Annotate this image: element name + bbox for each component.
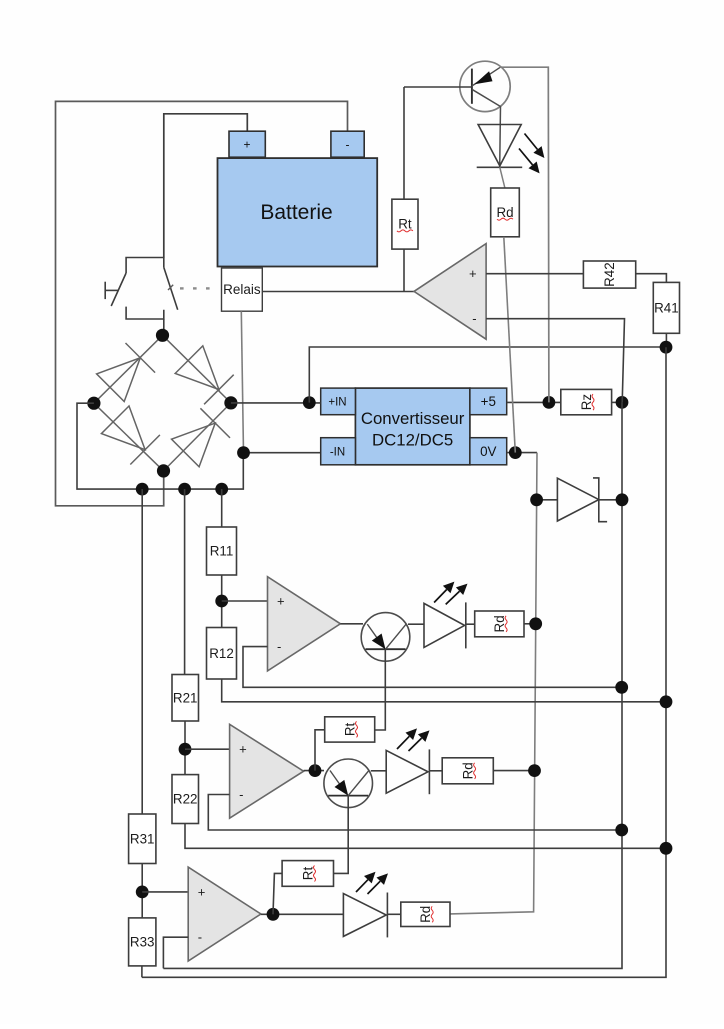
wire divider to U2 plus — [222, 600, 268, 602]
svg-text:R22: R22 — [173, 792, 198, 807]
resistor R21 — [172, 675, 199, 722]
transistor Q1 emitter with arrow — [472, 67, 500, 86]
wire +5 to Rz — [507, 401, 561, 403]
node +IN junction — [303, 396, 316, 409]
LED D7 light arrows — [397, 736, 409, 749]
node -IN junction — [237, 446, 250, 459]
op-amp U2 — [268, 577, 341, 671]
wire Rz to right bus — [612, 401, 622, 403]
wire 0V to bus — [507, 452, 537, 454]
resistor Rd3 — [442, 758, 493, 784]
wire battery plus to switch top — [164, 114, 248, 258]
LED D5 indicator — [478, 125, 521, 166]
wire U3 out to Rt3 — [315, 730, 325, 771]
wire bus R41 rail (x666) — [142, 347, 666, 977]
wire Q1 base from Rt — [404, 86, 472, 88]
node rail R21 tap — [178, 483, 191, 496]
node U2 feedback junction — [615, 681, 628, 694]
svg-text:R12: R12 — [209, 646, 234, 661]
resistor R33 — [129, 918, 156, 966]
wire U4 minus feedback — [163, 937, 188, 968]
switch left moving contact — [111, 273, 126, 306]
wire Rt1 bottom to relais wire — [403, 249, 405, 291]
svg-text:R41: R41 — [654, 300, 679, 315]
LED D7 indicator — [386, 750, 428, 793]
node +5 junction — [543, 396, 556, 409]
wire Rd1 to 0V node — [504, 237, 516, 453]
wire bridge right to +IN — [231, 402, 321, 404]
diode bridge D1 — [97, 358, 141, 402]
wire -IN node to converter — [244, 452, 321, 454]
wire U4 out to Rt4 — [273, 873, 282, 914]
wire R31 to R33 — [141, 864, 143, 918]
battery terminal + — [229, 131, 265, 157]
transistor Q1 base bar — [471, 69, 473, 104]
svg-text:+: + — [239, 742, 247, 757]
wire relais bottom to -IN node — [241, 311, 243, 453]
relay linkage dashed line — [180, 287, 210, 289]
svg-text:+: + — [243, 138, 250, 152]
wire LED2 to Rd2 — [466, 623, 475, 625]
svg-text:R11: R11 — [210, 544, 234, 559]
node R12 rail junction — [660, 695, 673, 708]
node zener right — [616, 493, 629, 506]
wire bridge branch bottom-right — [164, 403, 231, 471]
switch lower bracket — [126, 307, 164, 319]
wire bridge branch top-right — [163, 335, 231, 403]
wire U1 plus to R42 — [486, 273, 583, 275]
svg-text:R21: R21 — [173, 690, 198, 705]
op-amp U3 — [230, 724, 304, 818]
svg-text:Convertisseur: Convertisseur — [361, 409, 465, 428]
wire Q2 emitter to Rt3 — [375, 649, 386, 730]
wire battery minus to bridge bottom outer loop — [56, 101, 348, 505]
wire +IN node up to +5V rail — [309, 347, 666, 403]
node zener left — [530, 493, 543, 506]
node 0V junction — [509, 446, 522, 459]
wire U3 out — [304, 770, 324, 772]
svg-text:R33: R33 — [130, 935, 155, 950]
svg-text:Batterie: Batterie — [260, 201, 332, 224]
resistor R31 — [129, 814, 156, 864]
diode bridge D3 — [101, 406, 145, 450]
svg-text:-: - — [346, 138, 350, 152]
diode bridge D2 — [175, 346, 219, 390]
switch contact upper bracket — [126, 258, 164, 274]
svg-text:DC12/DC5: DC12/DC5 — [372, 431, 453, 450]
resistor R22 — [172, 775, 199, 824]
wire R12 bottom to R41 rail — [222, 679, 666, 702]
node R22 rail junction — [660, 842, 673, 855]
diode bridge D4 — [172, 423, 216, 467]
wire divider to U3 plus — [185, 748, 230, 750]
transistor Q1 collector — [472, 89, 501, 167]
wire rail to R21 — [184, 489, 186, 674]
wire relais output to op-amp U1 — [262, 291, 414, 293]
wire Rt1 top — [403, 87, 405, 199]
node Rz right — [616, 396, 629, 409]
switch actuator tick — [168, 285, 173, 290]
converter DC12/DC5 body — [355, 388, 470, 465]
wire switch to bridge top node — [163, 319, 165, 335]
LED D5 light arrows — [525, 134, 538, 150]
resistor R42 — [583, 261, 635, 288]
node R21-R22 divider — [179, 743, 192, 756]
svg-text:+: + — [198, 884, 206, 899]
switch left terminal T — [104, 282, 106, 299]
wire U4 out — [261, 913, 344, 915]
svg-text:-: - — [472, 311, 476, 326]
switch left terminal lead — [105, 289, 118, 291]
node rail R31 tap — [136, 483, 149, 496]
wire Q2 collector to LED2 — [408, 623, 424, 625]
wire LED1 to Rd1 — [500, 167, 505, 188]
LED D8 light arrows — [356, 880, 368, 892]
svg-text:Rt: Rt — [342, 722, 357, 736]
resistor Rd2 — [475, 611, 524, 637]
node R31-R33 divider — [136, 886, 149, 899]
wire rail to R11 — [221, 489, 223, 527]
svg-text:Rt: Rt — [300, 867, 315, 881]
resistor Rd1 — [491, 188, 520, 237]
wire bus 0V (x537 slanted) — [450, 453, 537, 914]
battery terminal - — [331, 131, 364, 157]
relay Relais coil box — [222, 268, 263, 311]
wire zener left — [537, 499, 558, 501]
LED D6 light arrows — [434, 590, 447, 603]
svg-text:R31: R31 — [130, 831, 155, 846]
wire U3 minus feedback — [208, 795, 621, 831]
converter pin -IN — [321, 438, 356, 465]
svg-text:+IN: +IN — [328, 397, 346, 409]
node bridge bottom — [157, 464, 170, 477]
svg-text:-: - — [239, 787, 243, 802]
wire Q3 collector to LED3 — [371, 770, 386, 772]
wire R11 to R12 — [221, 575, 223, 628]
svg-text:-IN: -IN — [330, 447, 345, 459]
svg-text:R42: R42 — [602, 262, 617, 287]
wire R42 to R41 — [636, 274, 667, 283]
node U3 output — [309, 764, 322, 777]
svg-text:-: - — [277, 639, 281, 654]
svg-text:+: + — [277, 594, 285, 609]
wire bridge branch left-top — [94, 335, 163, 403]
wire bridge left node to bottom rail — [77, 403, 243, 489]
wire R21 to R22 — [184, 721, 186, 775]
wire R41 bottom to bus node — [665, 333, 667, 347]
svg-text:Relais: Relais — [223, 282, 261, 297]
node Rd3 bus junction — [528, 764, 541, 777]
node rail R11 tap — [215, 483, 228, 496]
wire bridge branch left-bottom — [94, 403, 164, 471]
switch right moving contact — [164, 267, 178, 309]
node U4 output — [267, 908, 280, 921]
wire divider to U4 plus — [142, 891, 188, 893]
node U3 feedback junction — [615, 824, 628, 837]
resistor Rz — [561, 389, 612, 414]
wire Rd2 to 0V bus — [524, 623, 536, 625]
transistor Q1 circle — [460, 61, 510, 111]
resistor Rt3 — [325, 717, 375, 742]
LED D6 indicator — [424, 603, 465, 647]
wire Q3 emitter to Rt4 — [334, 796, 349, 874]
svg-text:Rt: Rt — [398, 217, 412, 232]
transistor Q2 — [361, 613, 410, 662]
battery Batterie body — [218, 158, 378, 266]
wire U2 out to Q2 — [340, 623, 363, 625]
converter pin +IN — [321, 388, 356, 415]
node R11-R12 divider — [215, 595, 228, 608]
LED D8 indicator — [343, 894, 386, 937]
wire zener right — [599, 499, 622, 501]
node bridge top — [156, 329, 169, 342]
svg-text:-: - — [198, 930, 202, 945]
wire R33 bottom to rail — [141, 966, 143, 977]
svg-text:+: + — [469, 266, 477, 281]
wire LED3 to Rd3 — [429, 770, 442, 772]
op-amp U4 — [188, 867, 261, 961]
transistor Q3 — [324, 759, 373, 808]
wire R22 bottom to R41 rail — [185, 824, 666, 849]
resistor R41 — [653, 282, 679, 333]
node bridge left — [87, 397, 100, 410]
resistor R12 — [207, 628, 237, 680]
node Rd2 bus junction — [529, 617, 542, 630]
node bridge right — [224, 396, 237, 409]
wire Q1 emitter to right bus — [500, 67, 549, 402]
svg-text:+5: +5 — [481, 394, 496, 409]
wire U2 minus feedback — [243, 647, 622, 688]
svg-text:0V: 0V — [480, 444, 496, 459]
resistor R11 — [207, 527, 237, 575]
resistor Rt1 — [392, 199, 418, 249]
op-amp U1 — [414, 244, 486, 340]
wire Rd3 to 0V bus — [493, 770, 534, 772]
converter pin 0V — [470, 438, 507, 465]
resistor Rd4 — [401, 902, 450, 926]
resistor Rt4 — [282, 861, 333, 887]
converter pin +5 — [470, 388, 507, 415]
node +5V rail / R41 — [660, 341, 673, 354]
wire LED4 to Rd4 — [387, 913, 400, 915]
zener diode Dz — [557, 478, 598, 521]
wire U1 minus to right bus — [486, 319, 624, 403]
wire bus Rz-zener-feedback (x622) — [163, 402, 622, 968]
wire rail to R31 — [141, 489, 143, 814]
